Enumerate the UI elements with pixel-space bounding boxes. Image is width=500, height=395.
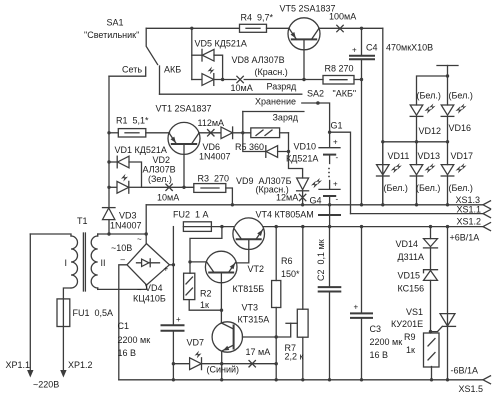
svg-text:(Бел.): (Бел.)	[417, 91, 441, 101]
svg-text:FU1 0,5А: FU1 0,5А	[73, 308, 114, 318]
svg-text:2200 мк: 2200 мк	[118, 335, 151, 345]
wire LED middle bus	[383, 141, 448, 143]
svg-text:Заряд: Заряд	[273, 113, 299, 123]
svg-text:VD16: VD16	[449, 123, 472, 133]
wire top from SA1 to VT5	[146, 27, 239, 29]
svg-text:VD12: VD12	[419, 126, 442, 136]
node C1 to VD7	[172, 362, 175, 365]
current break X 10мА	[237, 76, 243, 82]
wire LED top row branches	[417, 76, 448, 105]
capacitor C3	[351, 227, 372, 380]
node R1 left	[107, 131, 110, 134]
svg-text:VD15: VD15	[398, 271, 421, 281]
svg-text:VT1 2SA1837: VT1 2SA1837	[156, 104, 212, 114]
pin XS1.5 chevron	[483, 376, 491, 384]
node VT2 collector branch	[188, 260, 191, 263]
fuse FU2	[183, 222, 233, 232]
svg-text:VD11: VD11	[388, 151, 410, 161]
diode VD6	[221, 127, 251, 139]
svg-text:-: -	[336, 195, 339, 204]
svg-text:112мА: 112мА	[198, 118, 225, 128]
wire VT4 emitter to XS1.2	[264, 226, 483, 228]
svg-text:100мА: 100мА	[329, 12, 356, 22]
trimmer R7	[297, 227, 308, 380]
svg-text:R3 270: R3 270	[198, 174, 230, 184]
wire VT1 collector with X 112мА	[199, 132, 221, 134]
svg-text:(Красн.): (Красн.)	[255, 67, 288, 77]
thyristor VS1	[429, 227, 456, 380]
svg-text:VD3: VD3	[119, 211, 137, 221]
svg-text:10мА: 10мА	[231, 83, 253, 93]
svg-text:VD6: VD6	[203, 142, 221, 152]
svg-text:1к: 1к	[200, 300, 209, 310]
svg-text:КЦ410Б: КЦ410Б	[133, 294, 166, 304]
node bridge plus	[172, 263, 175, 266]
transformer T1 core	[83, 233, 85, 291]
wire XS1.3 left leg	[145, 205, 147, 244]
svg-text:+: +	[352, 46, 357, 55]
svg-text:VT3: VT3	[242, 303, 259, 313]
node C4 top	[360, 27, 363, 30]
node FU2 / VT2 branch	[220, 225, 223, 228]
wire VT4 base down and to VT2	[236, 240, 249, 263]
LED array top terminal bar	[437, 66, 458, 77]
capacitor C4	[350, 46, 374, 60]
pin XP1.2 arrow	[60, 370, 66, 378]
svg-text:VT2: VT2	[248, 264, 265, 274]
node R9 bottom on bus	[430, 378, 433, 381]
node VS1 top on XS1.2	[446, 225, 449, 228]
svg-text:R1 5,1*: R1 5,1*	[116, 116, 149, 126]
transistor VT3	[212, 322, 242, 352]
svg-text:C2 0,1 мк: C2 0,1 мк	[316, 239, 326, 281]
svg-text:17 мА: 17 мА	[246, 347, 271, 357]
svg-text:R5 360: R5 360	[235, 142, 264, 152]
svg-text:FU2 1 А: FU2 1 А	[173, 210, 209, 220]
svg-text:Сеть: Сеть	[122, 65, 142, 75]
battery G1 cell 1	[319, 132, 340, 163]
svg-text:(Бел.): (Бел.)	[449, 183, 473, 193]
pin XS1.2 chevron	[483, 223, 491, 231]
node C1 bottom on bus	[172, 378, 175, 381]
node R3 on XS1.3	[231, 203, 234, 206]
pin XS1.1 chevron	[483, 210, 491, 218]
svg-text:+: +	[333, 138, 338, 147]
pin XS1.3 chevron	[483, 201, 491, 209]
node R7 bottom on bus	[301, 378, 304, 381]
current break X 10мА left	[166, 184, 172, 190]
bridge rectifier VD4	[121, 235, 170, 295]
node VD3 bottom	[107, 232, 110, 235]
wire FU2 node to VT2 collector and R2	[190, 227, 222, 274]
resistor R9	[424, 333, 440, 380]
node LED top junction	[446, 74, 449, 77]
node VT3 emitter/VD7	[220, 362, 223, 365]
wire 10мА row	[142, 186, 194, 188]
wire SA2 to G1	[318, 103, 330, 132]
resistor R8	[323, 76, 362, 85]
svg-text:XP1.1: XP1.1	[6, 360, 31, 370]
svg-text:~10В: ~10В	[111, 243, 132, 253]
wire X to VT5 base node	[244, 79, 323, 81]
battery bottom cell plate	[319, 205, 340, 227]
node C4 column on XS1.3	[360, 203, 363, 206]
node LED VD13 on XS1.3	[415, 203, 418, 206]
transformer T1 secondary winding	[91, 234, 98, 289]
svg-text:C4: C4	[366, 43, 378, 53]
node VD7 wire to R6 column	[275, 362, 278, 365]
battery G1 cell G4	[319, 180, 340, 205]
LED VD12	[410, 104, 435, 142]
svg-text:АКБ: АКБ	[164, 65, 181, 75]
LED VD7	[173, 351, 276, 370]
svg-text:1к: 1к	[406, 345, 415, 355]
wire C4 branch	[361, 28, 363, 55]
svg-text:C3: C3	[370, 324, 382, 334]
resistor R6	[272, 227, 281, 380]
svg-text:XS1.1: XS1.1	[457, 205, 482, 215]
LED VD9	[297, 178, 322, 205]
svg-text:+: +	[164, 265, 169, 274]
switch SA2 arm	[302, 102, 318, 104]
node VD5 column top	[190, 27, 193, 30]
svg-text:~220В: ~220В	[33, 380, 59, 390]
node VD6/R5 junction	[241, 131, 244, 134]
LED VD2	[109, 174, 142, 193]
node LED VD11 on XS1.3	[381, 203, 384, 206]
node R2 to base column	[220, 309, 223, 312]
battery dots	[328, 168, 330, 178]
wire bridge minus down to bottom bus	[119, 265, 127, 380]
svg-text:R6: R6	[281, 256, 293, 266]
transistor VT4	[233, 218, 265, 250]
svg-text:R4 9,7*: R4 9,7*	[241, 13, 274, 23]
svg-text:1N4007: 1N4007	[110, 221, 142, 231]
resistor R4	[240, 24, 267, 32]
transistor VT2	[205, 251, 237, 283]
svg-text:VD17: VD17	[451, 151, 474, 161]
svg-text:R2: R2	[200, 289, 212, 299]
svg-text:G4: G4	[310, 196, 322, 206]
svg-text:XP1.2: XP1.2	[68, 360, 93, 370]
node VS1 bottom on bus	[446, 378, 449, 381]
svg-text:(Бел.): (Бел.)	[449, 91, 473, 101]
wire XS1.3 line	[146, 204, 483, 206]
svg-text:+: +	[176, 315, 181, 324]
svg-text:Д311А: Д311А	[398, 252, 424, 262]
diode VD10 parallel to R5	[243, 133, 289, 158]
svg-text:VD5 КД521А: VD5 КД521А	[195, 39, 247, 49]
svg-text:~: ~	[137, 235, 142, 244]
svg-text:VT5 2SA1837: VT5 2SA1837	[280, 4, 336, 14]
svg-text:470мкХ10В: 470мкХ10В	[386, 43, 433, 53]
svg-text:R9: R9	[404, 332, 416, 342]
resistor R5	[251, 128, 289, 138]
diode VD3	[103, 208, 116, 234]
node VD14 top on XS1.2	[429, 225, 432, 228]
svg-text:VD7: VD7	[187, 338, 205, 348]
current break X 112мА	[208, 130, 214, 136]
wire secondary bottom	[98, 285, 147, 290]
node G1 top	[328, 131, 331, 134]
svg-text:16 В: 16 В	[370, 350, 389, 360]
LED VD8	[192, 67, 236, 86]
node base wire on R6 column	[275, 335, 278, 338]
current break X 17мА	[249, 361, 255, 367]
resistor R3	[194, 184, 233, 205]
svg-text:R8 270: R8 270	[325, 64, 354, 74]
trimmer R7 wiper bar	[286, 322, 297, 324]
svg-text:"АКБ": "АКБ"	[333, 89, 357, 99]
LED VD13	[410, 142, 435, 205]
wire secondary top	[98, 233, 147, 235]
svg-text:G1: G1	[331, 121, 343, 131]
svg-text:КД521А: КД521А	[286, 154, 318, 164]
wire FU2 column	[172, 227, 174, 325]
wire left bus	[108, 76, 110, 207]
wire node to VT2 collector	[190, 261, 206, 263]
node bus right	[446, 140, 449, 143]
svg-text:VS1: VS1	[406, 307, 423, 317]
wire VT1 base	[183, 145, 185, 188]
svg-text:VD1 КД521А: VD1 КД521А	[115, 145, 167, 155]
svg-text:–: –	[121, 255, 126, 264]
svg-text:(Бел.): (Бел.)	[384, 183, 408, 193]
svg-text:SA2: SA2	[307, 89, 324, 99]
svg-text:T1: T1	[77, 216, 88, 226]
current break X 12мА	[299, 194, 305, 200]
svg-text:(Зел.): (Зел.)	[148, 174, 172, 184]
svg-text:+: +	[354, 303, 359, 312]
node bus mid	[415, 140, 418, 143]
svg-text:VD8 АЛ307В: VD8 АЛ307В	[232, 55, 285, 65]
svg-text:VT4 КТ805АМ: VT4 КТ805АМ	[256, 210, 314, 220]
current break X 100мА	[337, 25, 343, 31]
svg-text:-: -	[336, 153, 339, 162]
svg-text:КТ815Б: КТ815Б	[233, 284, 265, 294]
capacitor C2	[319, 227, 341, 380]
svg-text:-6В/1А: -6В/1А	[451, 366, 479, 376]
svg-text:10мА: 10мА	[157, 193, 179, 203]
wire XS1.1 line	[351, 213, 484, 215]
switch SA1	[109, 28, 160, 94]
diode VD1	[109, 156, 142, 187]
svg-text:+6В/1А: +6В/1А	[450, 233, 480, 243]
node R5 right leg	[287, 150, 290, 153]
diode VD14	[424, 227, 438, 270]
wire R4 to VT5	[267, 27, 290, 29]
svg-text:КУ201Е: КУ201Е	[391, 319, 423, 329]
svg-text:16 В: 16 В	[118, 348, 137, 358]
wire XP1.1	[29, 234, 31, 372]
svg-text:(Бел.): (Бел.)	[416, 183, 440, 193]
wire VT2 base column	[220, 273, 222, 323]
svg-text:VD2: VD2	[153, 155, 171, 165]
wire Заряд contact down to node	[242, 112, 244, 133]
node G4 on XS1.3	[328, 203, 331, 206]
fuse FU1	[57, 299, 70, 372]
svg-text:КТ315А: КТ315А	[238, 315, 270, 325]
node bus left	[381, 140, 384, 143]
resistor R2	[184, 273, 222, 310]
zener VD15	[424, 270, 438, 333]
node secondary top / XS1.3 leg	[145, 232, 148, 235]
svg-text:VD4: VD4	[145, 283, 163, 293]
node C2 bottom on bus	[328, 378, 331, 381]
svg-text:II: II	[101, 258, 106, 268]
node SA2 pivot	[316, 101, 320, 105]
wire VT5 base	[303, 40, 305, 80]
svg-text:XS1.5: XS1.5	[459, 384, 484, 394]
wire right column down to XS1.3	[382, 28, 384, 205]
wire bridge plus to FU2 column	[169, 264, 173, 266]
svg-text:(Синий): (Синий)	[207, 365, 240, 375]
transformer T1 primary winding	[30, 234, 77, 299]
svg-text:2,2 к: 2,2 к	[285, 352, 304, 362]
transistor VT5	[288, 18, 320, 50]
switch SA2 contact Заряд	[243, 111, 304, 113]
transistor VT1	[168, 122, 200, 154]
node R6 bottom on bus	[275, 378, 278, 381]
svg-text:VD13: VD13	[418, 151, 441, 161]
svg-text:XS1.2: XS1.2	[457, 217, 482, 227]
node VT1 base on row	[182, 186, 185, 189]
svg-text:2200 мк: 2200 мк	[370, 337, 403, 347]
node C3 bottom on bus	[360, 378, 363, 381]
LED VD16	[441, 104, 466, 142]
LED VD11	[377, 142, 402, 205]
svg-text:150*: 150*	[281, 269, 300, 279]
svg-text:КС156: КС156	[398, 284, 425, 294]
svg-text:1N4007: 1N4007	[199, 152, 231, 162]
capacitor C1	[162, 315, 184, 380]
wire to VD9	[289, 152, 303, 179]
wire C4 bottom to R8 node, down to XS1.3	[361, 59, 363, 205]
svg-text:Хранение: Хранение	[255, 97, 296, 107]
node VD1 left	[107, 160, 110, 163]
wire АКБ to SA2 contact (Разряд)	[160, 93, 302, 95]
resistor R1	[109, 129, 170, 137]
node R7 top on XS1.2	[301, 225, 304, 228]
node C4/R8	[360, 78, 363, 81]
node C3 top on XS1.2	[360, 225, 363, 228]
svg-text:SA1: SA1	[107, 18, 124, 28]
wire VT5 to corner with X 100мА	[319, 27, 383, 29]
svg-text:+: +	[333, 180, 338, 189]
node G1 bottom on XS1.2	[328, 225, 331, 228]
wire bottom bus	[119, 379, 483, 381]
diode VD5	[192, 49, 223, 79]
wire VD5/VD8 column	[191, 28, 193, 79]
node VT5 base	[302, 78, 305, 81]
wire VT3 emitter down	[221, 351, 223, 380]
svg-text:12мА: 12мА	[276, 193, 298, 203]
svg-text:XS1.3: XS1.3	[456, 195, 481, 205]
pin XP1.1 arrow	[27, 370, 33, 378]
svg-text:Разряд: Разряд	[267, 82, 298, 92]
node LED VD17 on XS1.3	[446, 203, 449, 206]
svg-text:АЛ307В: АЛ307В	[143, 165, 176, 175]
svg-text:VD14: VD14	[396, 239, 419, 249]
LED VD17	[441, 142, 466, 205]
svg-text:C1: C1	[118, 321, 130, 331]
svg-text:I: I	[65, 258, 68, 268]
node VD5/VD8 junction	[221, 78, 224, 81]
svg-text:"Светильник": "Светильник"	[84, 30, 139, 40]
node R6 top on XS1.2	[275, 225, 278, 228]
svg-text:VD10: VD10	[294, 142, 317, 152]
wire VT3 base to R6/R7	[242, 323, 290, 337]
node VD9 on XS1.3	[301, 203, 304, 206]
wire G1 top link to XS1.1 column	[330, 132, 351, 213]
node VT3 emitter on bus	[220, 378, 223, 381]
node VD2 left	[107, 186, 110, 189]
